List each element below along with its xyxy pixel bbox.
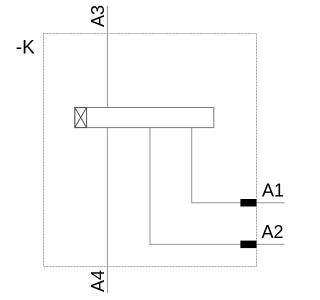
component outline -K (dashed boundary box): [44, 34, 257, 267]
terminal A2 (black pad): [240, 241, 256, 249]
coil K body (operating device rectangle): [75, 108, 214, 128]
svg-text:A4: A4: [88, 270, 108, 292]
svg-text:A1: A1: [262, 180, 284, 200]
terminal A1 (black pad): [240, 199, 256, 207]
svg-text:-K: -K: [16, 38, 35, 59]
svg-text:A2: A2: [262, 222, 284, 242]
coil left element box with X (remanence symbol): [75, 108, 87, 128]
wire to terminal A1: [192, 128, 285, 203]
svg-text:A3: A3: [88, 5, 108, 27]
wire to terminal A2: [150, 128, 285, 245]
wire A3-A4 (vertical through coil): [106, 6, 108, 293]
